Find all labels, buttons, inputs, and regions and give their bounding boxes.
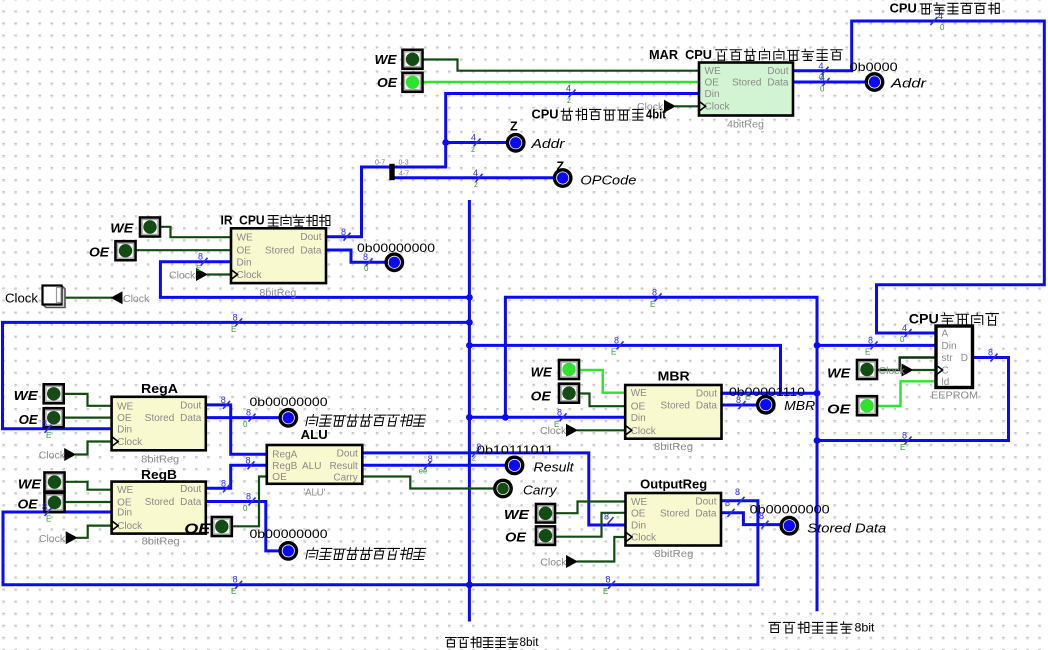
svg-text:Dout: Dout	[180, 400, 201, 411]
input pin WE (OutputReg)	[536, 504, 555, 523]
svg-text:8bitReg: 8bitReg	[654, 548, 693, 560]
svg-text:CPU: CPU	[909, 312, 939, 327]
wire IR WE input	[158, 227, 231, 237]
wire ALU Dout to OutputReg Din	[363, 453, 625, 525]
svg-text:Clock: Clock	[540, 557, 567, 569]
annotation 8/0 on RegB Data out	[243, 491, 256, 513]
wire EEPROM WE to str pin	[876, 358, 934, 371]
svg-text:Data: Data	[180, 413, 202, 424]
wire MBR Stored Data to MBR output pin	[722, 404, 758, 407]
splitter 8bit to 0-3 / 4-7	[375, 160, 409, 181]
wire RegB Clock from tunnel	[78, 526, 111, 538]
svg-text:RegB: RegB	[141, 468, 177, 482]
svg-text:4: 4	[902, 323, 907, 333]
svg-text:8: 8	[988, 348, 993, 358]
svg-text:8: 8	[902, 431, 907, 441]
svg-text:8: 8	[198, 252, 203, 262]
svg-text:0b00000000: 0b00000000	[250, 395, 328, 409]
svg-text:OE: OE	[237, 246, 252, 257]
svg-text:WE: WE	[375, 53, 398, 67]
pin labels IR	[237, 232, 322, 281]
memory EEPROM box	[936, 326, 973, 388]
tunnel Clock (source, left-pointing)	[111, 291, 123, 304]
input pin WE (RegB)	[45, 473, 65, 492]
svg-text:Clock: Clock	[117, 521, 143, 532]
svg-text:Stored: Stored	[660, 508, 689, 519]
svg-text:4: 4	[471, 133, 476, 143]
wire EEPROM D output loop to external bus	[817, 358, 1009, 441]
annotation 8/E on bottom bus right	[603, 574, 615, 596]
wire IR Din loop from internal bus row	[160, 262, 469, 298]
svg-text:8bit: 8bit	[855, 621, 876, 635]
svg-text:8: 8	[652, 288, 657, 298]
clock wedge RegA	[112, 437, 119, 447]
svg-text:Clock: Clock	[39, 450, 66, 462]
svg-text:Stored: Stored	[145, 413, 174, 424]
svg-text:8: 8	[221, 395, 226, 405]
svg-text:8: 8	[606, 574, 611, 584]
svg-text:Clock: Clock	[631, 533, 657, 544]
svg-text:Addr: Addr	[890, 77, 927, 91]
wire IR Clock from tunnel	[208, 273, 231, 275]
svg-text:8: 8	[42, 419, 47, 429]
annotation 8/E on D loop bottom	[900, 431, 912, 453]
svg-text:Din: Din	[117, 508, 132, 519]
wire RegA/RegB Din loop from left edge	[3, 322, 470, 428]
output pin Addr (internal, hi-Z)	[508, 135, 524, 151]
pin labels MBR	[631, 388, 718, 437]
wire MAR Stored Data to Addr output pin	[793, 81, 866, 84]
annotation 8 on EEPROM D wire	[988, 348, 998, 362]
annotation 8/E on EEPROM Din	[865, 335, 878, 356]
bus internal data bus 8bit (vertical)	[468, 202, 471, 621]
svg-text:8: 8	[246, 455, 251, 465]
input pin OE (RegA)	[44, 408, 64, 427]
wire RegA Stored Data to test output pin	[206, 416, 281, 419]
register MAR 4bitReg box	[699, 63, 793, 116]
input pin OE (OutputReg)	[536, 526, 555, 545]
svg-text:Addr: Addr	[530, 137, 565, 151]
wire MAR Din from splitter 0-3 branch	[395, 94, 697, 168]
wire MBR Clock from tunnel	[578, 429, 624, 431]
wire RegB Din loop from bottom bus	[3, 501, 758, 585]
svg-text:0: 0	[243, 504, 248, 513]
svg-text:E: E	[865, 348, 870, 357]
svg-text:4: 4	[566, 84, 571, 94]
pin labels ALU (RegA RegB OE / Dout Result Carry)	[272, 448, 358, 483]
tunnel Clock to OutputReg	[566, 555, 578, 568]
svg-text:8: 8	[735, 487, 740, 497]
svg-text:A: A	[942, 329, 949, 340]
svg-text:8bitReg: 8bitReg	[142, 536, 180, 548]
wire MAR Clock from tunnel	[676, 105, 697, 107]
svg-text:Dout: Dout	[767, 66, 788, 77]
svg-text:MBR: MBR	[784, 399, 815, 413]
annotation 4/0 on external address bus top	[931, 11, 946, 32]
svg-text:8: 8	[42, 502, 47, 512]
svg-text:0b0000: 0b0000	[850, 60, 898, 74]
svg-text:ALU: ALU	[302, 461, 321, 472]
svg-text:WE: WE	[827, 367, 851, 381]
register MBR 8bitReg box	[625, 385, 721, 439]
label external data bus 8bit (CJK)	[769, 622, 852, 633]
output pin IR test output 0b00000000	[386, 254, 402, 270]
clock wedge RegB	[112, 521, 119, 531]
svg-text:4: 4	[473, 168, 478, 178]
svg-text:Data: Data	[180, 497, 202, 508]
svg-text:E: E	[603, 587, 608, 596]
svg-text:C: C	[942, 366, 949, 377]
clock wedge MBR	[625, 425, 632, 435]
svg-text:8bitReg: 8bitReg	[654, 441, 693, 453]
annotation 4/0 on EEPROM A wire	[900, 323, 912, 344]
wire internal bus upper row to external bus	[505, 297, 817, 610]
svg-text:Stored Data: Stored Data	[807, 522, 886, 536]
annotation 8 on ALU RegB input	[246, 455, 255, 469]
input pin OE (MAR)	[403, 73, 423, 92]
tunnel Clock to MAR	[664, 100, 676, 113]
output pin Carry	[495, 480, 511, 496]
svg-text:0: 0	[820, 85, 825, 94]
svg-text:0-7: 0-7	[375, 160, 385, 167]
svg-text:Din: Din	[631, 413, 646, 424]
svg-text:E: E	[196, 264, 201, 273]
svg-text:OE: OE	[631, 402, 646, 413]
pin labels MAR (WE OE Din Clock / Dout Stored Data)	[705, 66, 789, 112]
svg-text:8: 8	[233, 312, 238, 322]
wire MAR WE input	[423, 60, 697, 71]
annotation 8/E on MBR Data out	[736, 393, 750, 410]
svg-text:0b00000000: 0b00000000	[250, 527, 328, 541]
annotation 8/ee on Result wire	[419, 454, 433, 476]
svg-text:E: E	[745, 393, 750, 402]
node junction internal bus / row322	[466, 319, 473, 326]
wire OutputReg WE input	[554, 502, 625, 514]
svg-text:EEPROM: EEPROM	[931, 390, 978, 402]
svg-text:OE: OE	[531, 389, 552, 403]
svg-text:Result: Result	[329, 461, 358, 472]
svg-text:Din: Din	[705, 89, 720, 100]
wire CPU external address bus (MAR Dout to top-right loop to EEPROM A)	[793, 21, 1044, 333]
svg-text:WE: WE	[110, 222, 134, 236]
svg-text:Data: Data	[767, 78, 789, 89]
svg-text:WE: WE	[531, 365, 553, 379]
svg-text:OE: OE	[705, 78, 720, 89]
wire RegB Stored Data to test output pin	[206, 502, 281, 551]
annotation 8/2 on ALU Dout near bus	[472, 442, 482, 462]
node junction internal bus / bottom row	[466, 581, 473, 588]
svg-text:4bitReg: 4bitReg	[727, 119, 764, 131]
svg-text:8: 8	[759, 511, 764, 521]
annotation 4/z on Addr tap	[471, 133, 481, 155]
annotation 4/z on MAR Din	[566, 84, 576, 106]
clock wedge OutputReg	[626, 532, 633, 542]
svg-text:E: E	[554, 420, 559, 429]
svg-text:0: 0	[243, 420, 248, 429]
wire EEPROM clock tunnel to C pin	[914, 369, 935, 371]
wire Addr output tap	[446, 141, 507, 144]
wire RegB WE input	[64, 482, 112, 490]
register IR 8bitReg box	[231, 228, 326, 283]
svg-text:0: 0	[364, 264, 369, 273]
pin labels RegB	[117, 484, 202, 532]
input pin OE (ALU)	[212, 517, 232, 536]
svg-text:E: E	[611, 348, 616, 357]
svg-text:z: z	[471, 145, 475, 154]
svg-text:Stored: Stored	[661, 401, 690, 412]
label register B test output (CJK italic)	[306, 548, 426, 560]
annotation 4/0 on MAR Data out	[820, 73, 830, 94]
wire internal bus to MBR Dout riser	[469, 345, 780, 393]
svg-text:str: str	[942, 353, 954, 364]
label internal data bus 8bit (CJK)	[446, 637, 519, 648]
input pin OE (RegB)	[45, 493, 65, 512]
input pin WE (EEPROM)	[857, 360, 877, 379]
wire RegB OE input	[64, 501, 111, 503]
svg-text:Carry: Carry	[523, 484, 557, 498]
input pin WE (MAR)	[403, 50, 423, 69]
pin labels EEPROM (A Din str C ld / D)	[942, 329, 969, 388]
svg-text:8: 8	[614, 335, 619, 345]
svg-text:ee: ee	[419, 467, 428, 476]
wire ALU OE input	[232, 477, 266, 527]
svg-text:0-3: 0-3	[399, 160, 409, 167]
wire OutputReg Clock from tunnel	[578, 537, 624, 562]
annotation 8 on OutputReg Din	[604, 511, 614, 525]
node junction internal bus / row297	[466, 294, 473, 301]
svg-text:Din: Din	[237, 257, 252, 268]
svg-text:Dout: Dout	[696, 389, 717, 400]
wire IR Stored Data to test output pin	[326, 250, 386, 262]
svg-text:Clock: Clock	[123, 293, 150, 305]
wire external bus to EEPROM Din	[817, 344, 934, 347]
svg-text:CPU: CPU	[890, 1, 917, 15]
svg-text:Din: Din	[942, 341, 957, 352]
wire MBR Dout to external bus	[722, 392, 815, 395]
annotation 8/E on RegA Din	[42, 419, 52, 440]
svg-text:CPU: CPU	[532, 108, 559, 122]
svg-text:4-7: 4-7	[399, 171, 409, 178]
svg-text:ALU: ALU	[301, 428, 328, 442]
svg-text:8: 8	[246, 491, 251, 501]
output pin Addr (external address bus)	[866, 74, 882, 90]
input pin WE (RegA)	[44, 384, 64, 403]
annotation 8 on OutputReg Data out	[725, 498, 735, 517]
node junction external bus / EEPROM Din	[814, 342, 821, 349]
svg-text:Dout: Dout	[300, 232, 321, 243]
svg-text:E: E	[231, 325, 236, 334]
wire RegA Clock from tunnel	[76, 442, 111, 455]
output pin RegB test output	[280, 543, 296, 559]
svg-text:E: E	[900, 443, 905, 452]
wire RegA Dout to ALU RegA input	[206, 405, 266, 454]
svg-text:Clock: Clock	[39, 533, 66, 545]
svg-text:WE: WE	[117, 401, 133, 412]
svg-text:E: E	[650, 300, 655, 309]
svg-text:Clock: Clock	[631, 426, 657, 437]
wire RegA WE input	[64, 394, 111, 406]
svg-text:8: 8	[868, 335, 873, 345]
svg-text:Carry: Carry	[333, 472, 357, 483]
tunnel Clock to RegA	[64, 448, 76, 461]
svg-text:8: 8	[246, 408, 251, 418]
wire RegB Dout to ALU RegB input	[206, 465, 266, 488]
svg-text:OE: OE	[18, 497, 39, 511]
svg-text:8: 8	[725, 498, 730, 508]
svg-text:Stored: Stored	[145, 497, 174, 508]
wire OutputReg Stored Data to output pin	[722, 513, 781, 525]
svg-text:0: 0	[900, 335, 905, 344]
output pin RegA test output	[280, 410, 296, 426]
pin labels RegA	[117, 400, 202, 448]
svg-text:OE: OE	[631, 508, 646, 519]
annotation 8/E on bus row345	[611, 335, 624, 356]
svg-text:2: 2	[472, 453, 477, 462]
input pin WE (MBR)	[559, 360, 579, 379]
svg-text:Data: Data	[695, 508, 717, 519]
svg-text:MBR: MBR	[658, 369, 690, 383]
svg-text:WE: WE	[631, 497, 647, 508]
wire EEPROM OE to ld pin	[876, 381, 934, 406]
svg-text:8: 8	[233, 574, 238, 584]
annotation 4/0 on MAR Dout	[819, 61, 829, 82]
annotation 8 on OutputReg Dout	[735, 487, 745, 505]
svg-text:0b10111011: 0b10111011	[477, 443, 554, 457]
svg-text:OE: OE	[19, 413, 39, 427]
svg-text:RegA: RegA	[272, 450, 297, 461]
annotation 4/z on OPCode wire	[473, 168, 483, 189]
wire MBR WE input	[578, 370, 624, 393]
svg-text:8: 8	[428, 454, 433, 464]
node junction internal bus row345	[466, 342, 473, 349]
svg-text:Data: Data	[300, 246, 322, 257]
clock wedge EEPROM C pin	[936, 365, 943, 375]
output pin Stored Data (OutputReg)	[781, 518, 797, 534]
wire MBR OE input	[578, 394, 624, 407]
svg-text:WE: WE	[504, 508, 530, 522]
wire RegA OE input	[64, 417, 111, 419]
svg-text:Dout: Dout	[337, 448, 358, 459]
svg-text:Z: Z	[557, 160, 565, 174]
register OutputReg 8bitReg box	[626, 493, 722, 546]
svg-text:Clock: Clock	[705, 102, 731, 113]
svg-text:IR CPU: IR CPU	[221, 214, 265, 228]
tunnel Clock to RegB	[66, 531, 78, 544]
tunnel Clock to EEPROM	[902, 364, 914, 377]
svg-text:Dout: Dout	[695, 496, 716, 507]
node junction external bus / MBR Dout	[814, 390, 821, 397]
annotation 8/E on RegB Din	[42, 502, 52, 524]
svg-text:Z: Z	[510, 120, 518, 134]
svg-text:OE: OE	[272, 472, 287, 483]
wire IR OE input	[134, 249, 231, 251]
annotation 8 on RegA Dout	[221, 395, 230, 409]
annotation 8/0 on IR Data out	[363, 252, 373, 273]
svg-text:8: 8	[557, 407, 562, 417]
annotation 8 on RegB Dout	[221, 478, 230, 492]
wire ALU Result to Result output pin	[363, 464, 507, 467]
register RegA 8bitReg box	[112, 397, 206, 451]
wire ALU Carry to Carry output pin	[363, 477, 496, 489]
svg-text:OE: OE	[184, 521, 211, 538]
svg-text:WE: WE	[237, 233, 253, 244]
svg-text:OE: OE	[505, 530, 527, 544]
svg-text:WE: WE	[18, 478, 42, 492]
annotation 8/0 on RegA Data out	[243, 408, 256, 430]
svg-text:8bit: 8bit	[520, 637, 540, 649]
wire OutputReg OE input	[554, 513, 625, 537]
svg-text:Din: Din	[631, 521, 646, 532]
svg-text:Dout: Dout	[180, 484, 201, 495]
clock wedge MAR	[699, 101, 706, 111]
input pin OE (EEPROM)	[857, 396, 877, 415]
annotation 8/E on internal bus row297	[650, 288, 662, 310]
svg-text:8bitReg: 8bitReg	[259, 287, 296, 299]
tunnel Clock to IR	[196, 268, 208, 281]
wire splitter input from IR Dout	[326, 167, 389, 237]
svg-text:8: 8	[341, 227, 346, 237]
svg-text:8: 8	[604, 511, 609, 521]
svg-text:E: E	[46, 431, 51, 440]
svg-text:OE: OE	[377, 76, 398, 90]
annotation 8/E on internal bus to MBR Din	[554, 407, 567, 429]
svg-text:0: 0	[940, 23, 945, 32]
svg-text:RegB: RegB	[272, 461, 297, 472]
svg-text:8: 8	[221, 478, 226, 488]
svg-text:ld: ld	[942, 377, 950, 388]
svg-text:8: 8	[736, 395, 741, 405]
svg-text:Din: Din	[117, 424, 132, 435]
svg-text:Clock: Clock	[237, 270, 263, 281]
svg-text:OE: OE	[827, 403, 851, 417]
svg-text:RegA: RegA	[141, 382, 178, 396]
svg-text:4: 4	[820, 73, 825, 83]
svg-text:8: 8	[363, 252, 368, 262]
wire Clock source to tunnel	[64, 297, 111, 299]
annotation 8 on Stored Data pin wire	[759, 511, 769, 529]
output pin MBR	[758, 397, 774, 413]
annotation 8/E on bottom bus	[231, 574, 242, 596]
input pin WE (IR)	[140, 218, 160, 237]
wire splitter 4-7 branch to OPCode pin	[395, 176, 554, 179]
svg-text:OutputReg: OutputReg	[640, 477, 707, 491]
input pin OE (MBR)	[559, 384, 579, 403]
pin labels OutputReg	[631, 496, 717, 543]
svg-text:'ALU': 'ALU'	[303, 487, 325, 499]
svg-text:4: 4	[819, 61, 824, 71]
node junction Addr tap	[442, 139, 449, 146]
wire internal bus to MBR Din	[469, 416, 624, 419]
node junction riser / MBR Din	[502, 414, 509, 421]
wire MAR OE input	[423, 81, 697, 83]
svg-text:Stored: Stored	[732, 78, 761, 89]
clock source button	[43, 286, 66, 308]
svg-text:D: D	[961, 353, 968, 364]
svg-text:8: 8	[476, 442, 481, 452]
node junction external bus / EEPROM D loop	[814, 437, 821, 444]
svg-text:Clock: Clock	[5, 292, 39, 306]
output pin OPCode	[555, 170, 571, 186]
svg-text:4: 4	[938, 11, 943, 21]
svg-text:WE: WE	[631, 388, 647, 399]
svg-text:8bitReg: 8bitReg	[141, 454, 179, 466]
svg-text:Stored: Stored	[265, 246, 294, 257]
svg-text:4bit: 4bit	[646, 108, 667, 122]
svg-text:OE: OE	[117, 413, 132, 424]
svg-text:E: E	[231, 587, 236, 596]
svg-text:OE: OE	[89, 245, 110, 259]
register RegB 8bitReg box	[112, 482, 206, 534]
